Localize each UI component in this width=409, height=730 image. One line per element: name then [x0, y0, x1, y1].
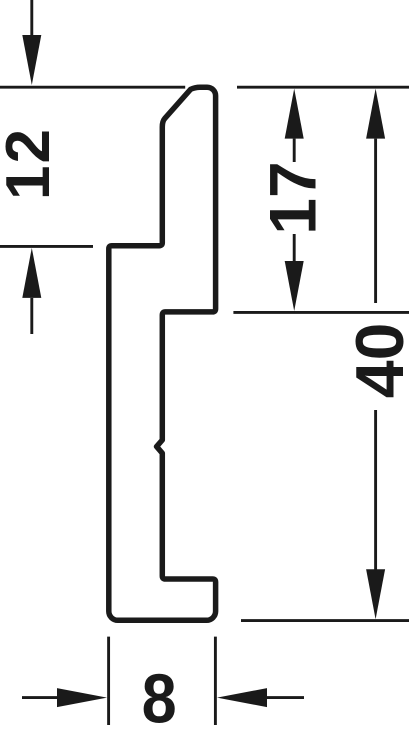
extension line top (y=87) right segment: [237, 86, 409, 89]
dim 17 top tail: [293, 139, 296, 162]
svg-text:8: 8: [142, 660, 177, 730]
dim 17 bottom tail: [293, 234, 296, 261]
extension line bottom-right vertical (x=215): [214, 637, 217, 725]
dim 17 top arrowhead (up): [285, 89, 304, 139]
dim 40 top tail: [374, 139, 377, 303]
dim 40 top arrowhead (up): [366, 89, 385, 139]
dim 8 left arrow tail: [22, 696, 58, 699]
extension line bottom (y=620): [241, 619, 409, 622]
dim 8 right arrow tail: [267, 696, 304, 699]
dim 8 left arrowhead (right): [57, 688, 107, 707]
dim 12 top arrow tail: [30, 0, 33, 36]
dim 40 bottom tail: [374, 410, 377, 570]
dim 17 bottom arrowhead (down): [285, 261, 304, 311]
dim 8 right arrowhead (left): [217, 688, 267, 707]
extension line bottom-left vertical (x=108): [107, 637, 110, 725]
dim 12 bottom arrowhead (up): [22, 248, 41, 298]
profile outline: [109, 87, 216, 620]
svg-text:17: 17: [256, 161, 330, 234]
svg-text:40: 40: [342, 323, 409, 399]
extension line top (y=87) left segment: [0, 86, 185, 89]
dim 12 top arrowhead (down): [22, 35, 41, 85]
extension line step2 (y=312): [233, 311, 409, 314]
svg-text:12: 12: [0, 127, 63, 200]
extension line step (y=246): [0, 245, 93, 248]
dim 40 bottom arrowhead (down): [366, 569, 385, 619]
dim 12 bottom arrow tail: [30, 298, 33, 334]
